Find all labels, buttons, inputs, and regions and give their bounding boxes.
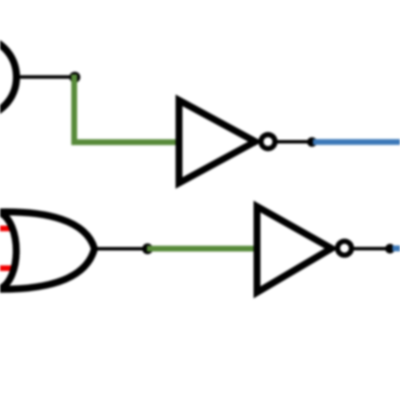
node D junction dot [385,244,395,254]
node B junction dot [307,137,317,147]
node C junction dot [142,243,153,254]
wire U2 output to node B [277,140,311,144]
inverter U4 bubble [338,241,352,255]
wire node A to U2 input (green) [74,75,179,143]
wire node C to U4 input (green) [147,246,257,252]
wire node D to right edge (blue) [393,245,400,251]
gate U1 (partial, off-canvas left, right arc visible) [0,37,17,118]
inverter U2 bubble [261,135,275,149]
wire U3 output to node C [94,247,148,251]
wire input 2 of U3 (red) [0,265,17,271]
wire U4 output to node D [353,247,390,251]
wire node B to right edge (blue) [313,139,400,145]
inverter U4 triangle [257,207,332,293]
wire input 1 of U3 (red) [0,226,17,232]
wire U1 output to node A [14,75,75,79]
node A junction dot [69,72,80,83]
or-gate U3 (partial, cut at left edge) [0,212,95,289]
inverter U2 triangle [179,100,255,183]
